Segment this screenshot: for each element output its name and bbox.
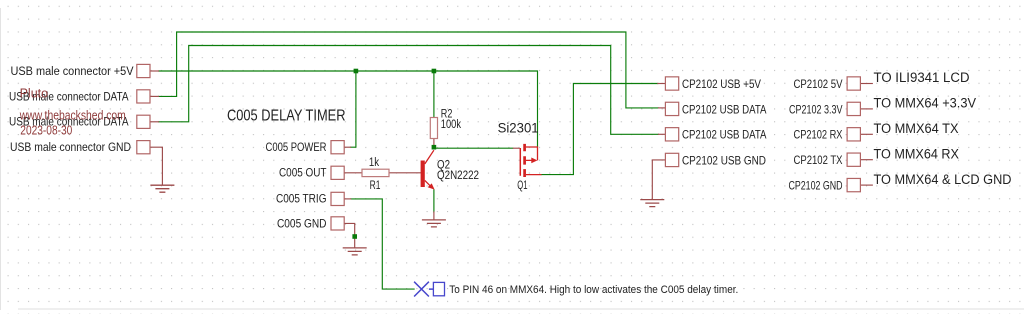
pin stub + wire USB GND to ground — [150, 147, 162, 185]
svg-text:CP2102 USB GND: CP2102 USB GND — [682, 153, 766, 167]
sheet edge faint lines — [0, 8, 2, 310]
svg-text:CP2102 GND: CP2102 GND — [789, 179, 843, 193]
ground USB male GND — [150, 185, 174, 192]
svg-text:1k: 1k — [369, 157, 379, 169]
resistor R1 body — [362, 169, 389, 176]
pin square USB male +5V — [137, 64, 150, 77]
X symbol PIN46 — [414, 282, 433, 297]
svg-text:Q2N2222: Q2N2222 — [437, 170, 479, 182]
stub R2 bottom to junction — [433, 139, 435, 147]
wire CP2102 USB GND to ground — [652, 160, 665, 199]
resistor R2 body — [430, 118, 437, 139]
svg-text:2023-08-30: 2023-08-30 — [20, 124, 72, 138]
svg-text:CP2102 USB DATA: CP2102 USB DATA — [682, 102, 767, 116]
pin square CP2102 GND — [847, 178, 860, 191]
wire C005 OUT to R1 — [344, 172, 362, 174]
svg-text:CP2102 TX: CP2102 TX — [794, 153, 843, 167]
pin stub USB DATA2 — [150, 121, 159, 123]
svg-text:CP2102 5V: CP2102 5V — [794, 77, 844, 91]
svg-text:TO MMX64 & LCD GND: TO MMX64 & LCD GND — [874, 172, 1012, 187]
pin stub USB +5V — [150, 70, 159, 72]
svg-text:C005 OUT: C005 OUT — [279, 166, 327, 180]
svg-text:CP2102 RX: CP2102 RX — [794, 128, 843, 142]
svg-text:CP2102 3.3V: CP2102 3.3V — [789, 102, 843, 116]
stub CP2102 USB +5V — [658, 83, 666, 85]
svg-text:R1: R1 — [370, 180, 381, 192]
ground Q2 emitter — [422, 220, 446, 227]
pin square C005 GND — [331, 217, 344, 230]
ground CP2102 USB GND — [640, 200, 664, 207]
svg-text:USB male connector GND: USB male connector GND — [10, 140, 131, 154]
svg-text:100k: 100k — [441, 119, 461, 131]
junction node C005 GND — [352, 234, 357, 239]
pin square C005 OUT — [331, 166, 344, 179]
stub CP2102 GND to label — [860, 184, 872, 186]
wire switched 5V net: Q1 drain to CP2102 USB +5V — [542, 84, 658, 175]
junction node +5V/R2 — [432, 69, 437, 74]
wire gate net: R2/Q2 junction to Q1 gate — [436, 147, 513, 149]
pin stub + wire C005 GND to ground — [344, 223, 355, 247]
svg-text:TO MMX64 TX: TO MMX64 TX — [874, 121, 959, 136]
stub CP2102 RX to label — [860, 133, 872, 135]
svg-text:TO MMX64 +3.3V: TO MMX64 +3.3V — [874, 96, 977, 111]
pin square USB male DATA2 — [137, 115, 150, 128]
pin square CP2102 5V — [847, 77, 860, 90]
wire +5V net: USB male +5V to Q1 source — [159, 71, 538, 147]
stub CP2102 TX to label — [860, 159, 872, 161]
pin square CP2102 USB +5V — [665, 77, 678, 90]
pin square CP2102 TX — [847, 153, 860, 166]
stub CP2102 3.3V to label — [860, 108, 872, 110]
transistor Q1 (Si2301 P-MOSFET) — [513, 144, 542, 177]
pin square USB male DATA1 — [137, 90, 150, 103]
pin square CP2102 USB GND — [665, 153, 678, 166]
pin square CP2102 USB DATA1 — [665, 102, 678, 115]
pin square CP2102 USB DATA2 — [665, 128, 678, 141]
svg-text:CP2102 USB +5V: CP2102 USB +5V — [682, 77, 762, 91]
transistor Q2 — [421, 150, 435, 189]
ground C005 GND — [343, 248, 367, 255]
stub CP2102 5V to label — [860, 83, 872, 85]
pin square C005 POWER — [331, 141, 344, 154]
svg-text:Pluto: Pluto — [20, 87, 49, 101]
svg-text:C005 POWER: C005 POWER — [266, 140, 327, 154]
svg-text:TO MMX64 RX: TO MMX64 RX — [874, 146, 960, 161]
pin square CP2102 3.3V — [847, 102, 860, 115]
svg-text:CP2102 USB DATA: CP2102 USB DATA — [682, 128, 767, 142]
wire R1 to Q2 base — [389, 172, 421, 174]
svg-text:C005 GND: C005 GND — [277, 216, 327, 230]
stub CP2102 USB DATA1 — [659, 107, 666, 109]
pin square CP2102 RX — [847, 128, 860, 141]
svg-text:Si2301: Si2301 — [498, 120, 539, 136]
wire TRIG net to PIN46 — [351, 199, 415, 289]
svg-text:To PIN 46 on MMX64. High to lo: To PIN 46 on MMX64. High to low activate… — [449, 284, 738, 296]
svg-text:www.thebackshed.com: www.thebackshed.com — [19, 109, 126, 123]
wire USB DATA 2 net — [159, 46, 659, 135]
svg-text:C005 DELAY TIMER: C005 DELAY TIMER — [227, 108, 346, 125]
pin square C005 TRIG — [331, 192, 344, 205]
svg-text:TO ILI9341 LCD: TO ILI9341 LCD — [874, 70, 970, 85]
svg-text:USB male connector +5V: USB male connector +5V — [11, 64, 135, 78]
svg-text:Q1: Q1 — [517, 180, 527, 192]
wire Q2 emitter to ground — [433, 190, 435, 212]
stub CP2102 USB DATA2 — [659, 133, 666, 135]
svg-text:C005 TRIG: C005 TRIG — [276, 191, 327, 205]
junction node +5V/POWER — [354, 69, 359, 74]
pin stub USB DATA1 — [150, 95, 159, 97]
pin stub C005 TRIG — [344, 198, 350, 200]
wire USB DATA 1 net — [159, 32, 659, 108]
stub Q2 emitter to ground — [433, 212, 435, 219]
junction node R2/Q2 collector/Q1 gate — [432, 145, 437, 150]
pin square USB male GND — [137, 141, 150, 154]
pin stub C005 POWER — [344, 146, 350, 148]
pin square PIN46 — [433, 282, 444, 295]
